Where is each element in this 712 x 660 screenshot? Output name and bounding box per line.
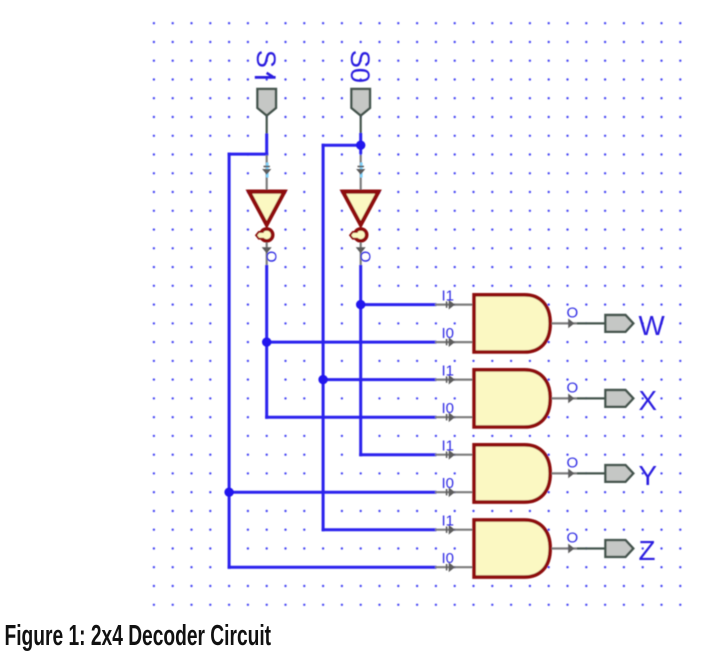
- junction node S0n / AND1 I1: [356, 300, 365, 309]
- and gate U4: [435, 370, 577, 427]
- junction node S0 / AND2 I1: [318, 375, 327, 384]
- output pin Y: [577, 465, 633, 482]
- wire S0 to AND2 I1: [323, 378, 435, 381]
- wire S0n to AND3 I1: [361, 453, 435, 456]
- wire S1 to AND4 I0: [229, 566, 435, 569]
- input pin S1: [257, 89, 276, 136]
- junction node at S0 tee: [356, 141, 365, 150]
- and gate U6: [435, 520, 577, 577]
- wire S1n to AND1 I0: [267, 341, 435, 344]
- wire S1 left column vertical: [228, 154, 231, 567]
- output pin X: [577, 390, 633, 407]
- output pin Z: [577, 540, 633, 557]
- input pin S0: [351, 89, 370, 136]
- wire S1n to AND2 I0: [267, 416, 435, 419]
- wire S0 branch column vertical: [322, 145, 325, 530]
- wire S1 pin drop: [265, 135, 268, 154]
- wire NOT2 output column vertical: [359, 267, 362, 455]
- not gate U2 (S0 inverter): [341, 155, 380, 266]
- wire S0 branch horizontal: [323, 144, 361, 147]
- output pin W: [577, 315, 633, 332]
- junction node S1 / AND3 I0: [224, 488, 233, 497]
- wire S0n to AND1 I1: [361, 303, 435, 306]
- not gate U1 (S1 inverter): [247, 155, 286, 266]
- and gate U3: [435, 295, 577, 352]
- wire NOT1 output column vertical: [265, 267, 268, 418]
- wire S1 to AND3 I0: [229, 491, 435, 494]
- and gate U5: [435, 445, 577, 502]
- wire S0 pin drop: [359, 135, 362, 153]
- junction node S1n / AND1 I0: [262, 337, 271, 346]
- wire S1 branch horizontal: [229, 153, 267, 156]
- svg-text:Figure 1: 2x4 Decoder Circuit: Figure 1: 2x4 Decoder Circuit: [5, 620, 272, 652]
- wire S0 to AND4 I1: [323, 528, 435, 531]
